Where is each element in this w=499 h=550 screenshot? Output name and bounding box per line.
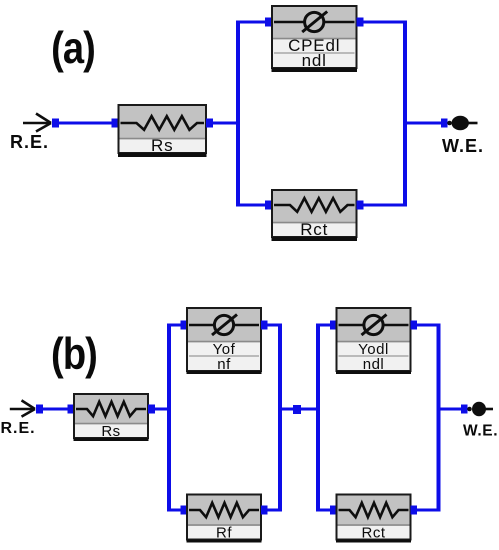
svg-text:ndl: ndl [363, 356, 385, 373]
svg-text:Rct: Rct [362, 525, 386, 542]
svg-text:ndl: ndl [302, 51, 327, 70]
svg-text:W.E.: W.E. [442, 136, 484, 156]
svg-text:(b): (b) [51, 329, 97, 378]
svg-text:W.E.: W.E. [463, 423, 498, 440]
svg-text:Rs: Rs [151, 136, 173, 155]
svg-text:Rs: Rs [101, 423, 120, 440]
svg-text:R.E.: R.E. [10, 132, 49, 152]
svg-text:Rct: Rct [300, 220, 328, 239]
svg-text:Rf: Rf [216, 525, 232, 542]
svg-text:(a): (a) [51, 23, 95, 72]
svg-text:nf: nf [217, 356, 231, 373]
svg-text:R.E.: R.E. [1, 420, 36, 437]
